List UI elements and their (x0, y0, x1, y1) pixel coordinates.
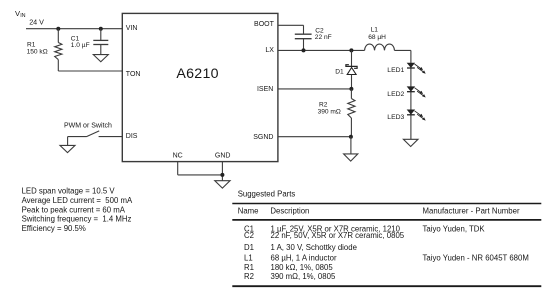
svg-text:LED2: LED2 (387, 91, 404, 98)
svg-text:22 nF: 22 nF (315, 34, 332, 41)
svg-text:SGND: SGND (253, 134, 273, 141)
svg-text:180 kΩ, 1%, 0805: 180 kΩ, 1%, 0805 (271, 263, 334, 272)
svg-text:Suggested Parts: Suggested Parts (238, 189, 296, 198)
svg-text:TON: TON (126, 71, 141, 78)
svg-text:68 µH, 1 A inductor: 68 µH, 1 A inductor (271, 254, 337, 263)
svg-text:Taiyo Yuden, TDK: Taiyo Yuden, TDK (423, 224, 486, 233)
svg-text:Switching frequency = 1.4 MHz: Switching frequency = 1.4 MHz (22, 215, 132, 224)
svg-text:NC: NC (173, 153, 183, 160)
svg-text:390 mΩ, 1%, 0805: 390 mΩ, 1%, 0805 (271, 272, 336, 281)
svg-text:390 mΩ: 390 mΩ (318, 109, 341, 116)
svg-text:R2: R2 (244, 272, 254, 281)
svg-text:22 nF, 50V, X5R or X7R ceramic: 22 nF, 50V, X5R or X7R ceramic, 0805 (271, 231, 405, 240)
svg-text:24 V: 24 V (29, 17, 44, 26)
svg-text:LED1: LED1 (387, 67, 404, 74)
svg-text:L1: L1 (244, 254, 253, 263)
svg-text:A6210: A6210 (176, 66, 219, 82)
svg-text:D1: D1 (244, 243, 254, 252)
svg-text:Taiyo Yuden - NR 6045T 680M: Taiyo Yuden - NR 6045T 680M (423, 254, 529, 263)
svg-text:Average LED current = 500 mA: Average LED current = 500 mA (22, 196, 133, 205)
svg-text:GND: GND (215, 153, 231, 160)
svg-text:1.0 µF: 1.0 µF (71, 42, 90, 49)
svg-text:Manufacturer - Part Number: Manufacturer - Part Number (423, 206, 520, 215)
svg-text:LED3: LED3 (387, 114, 404, 121)
svg-text:Name: Name (238, 206, 259, 215)
svg-text:DIS: DIS (126, 133, 138, 140)
svg-text:Efficiency = 90.5%: Efficiency = 90.5% (22, 224, 86, 233)
svg-text:BOOT: BOOT (254, 21, 275, 28)
svg-text:ISEN: ISEN (257, 86, 273, 93)
svg-text:R1: R1 (27, 42, 36, 49)
svg-text:R1: R1 (244, 263, 254, 272)
svg-text:1 A, 30 V, Schottky diode: 1 A, 30 V, Schottky diode (271, 243, 357, 252)
svg-text:68 µH: 68 µH (368, 34, 386, 41)
svg-text:D1: D1 (335, 69, 344, 76)
svg-text:LX: LX (265, 47, 274, 54)
svg-text:Peak to peak current = 60 mA: Peak to peak current = 60 mA (22, 205, 126, 214)
svg-text:Description: Description (270, 206, 309, 215)
svg-text:150 kΩ: 150 kΩ (27, 49, 48, 56)
svg-text:PWM or Switch: PWM or Switch (64, 122, 112, 129)
svg-text:VIN: VIN (126, 25, 138, 32)
svg-text:R2: R2 (319, 101, 328, 108)
svg-text:LED span voltage = 10.5 V: LED span voltage = 10.5 V (22, 187, 116, 196)
svg-text:L1: L1 (371, 27, 379, 34)
svg-text:C2: C2 (244, 231, 254, 240)
svg-text:IN: IN (20, 13, 25, 19)
